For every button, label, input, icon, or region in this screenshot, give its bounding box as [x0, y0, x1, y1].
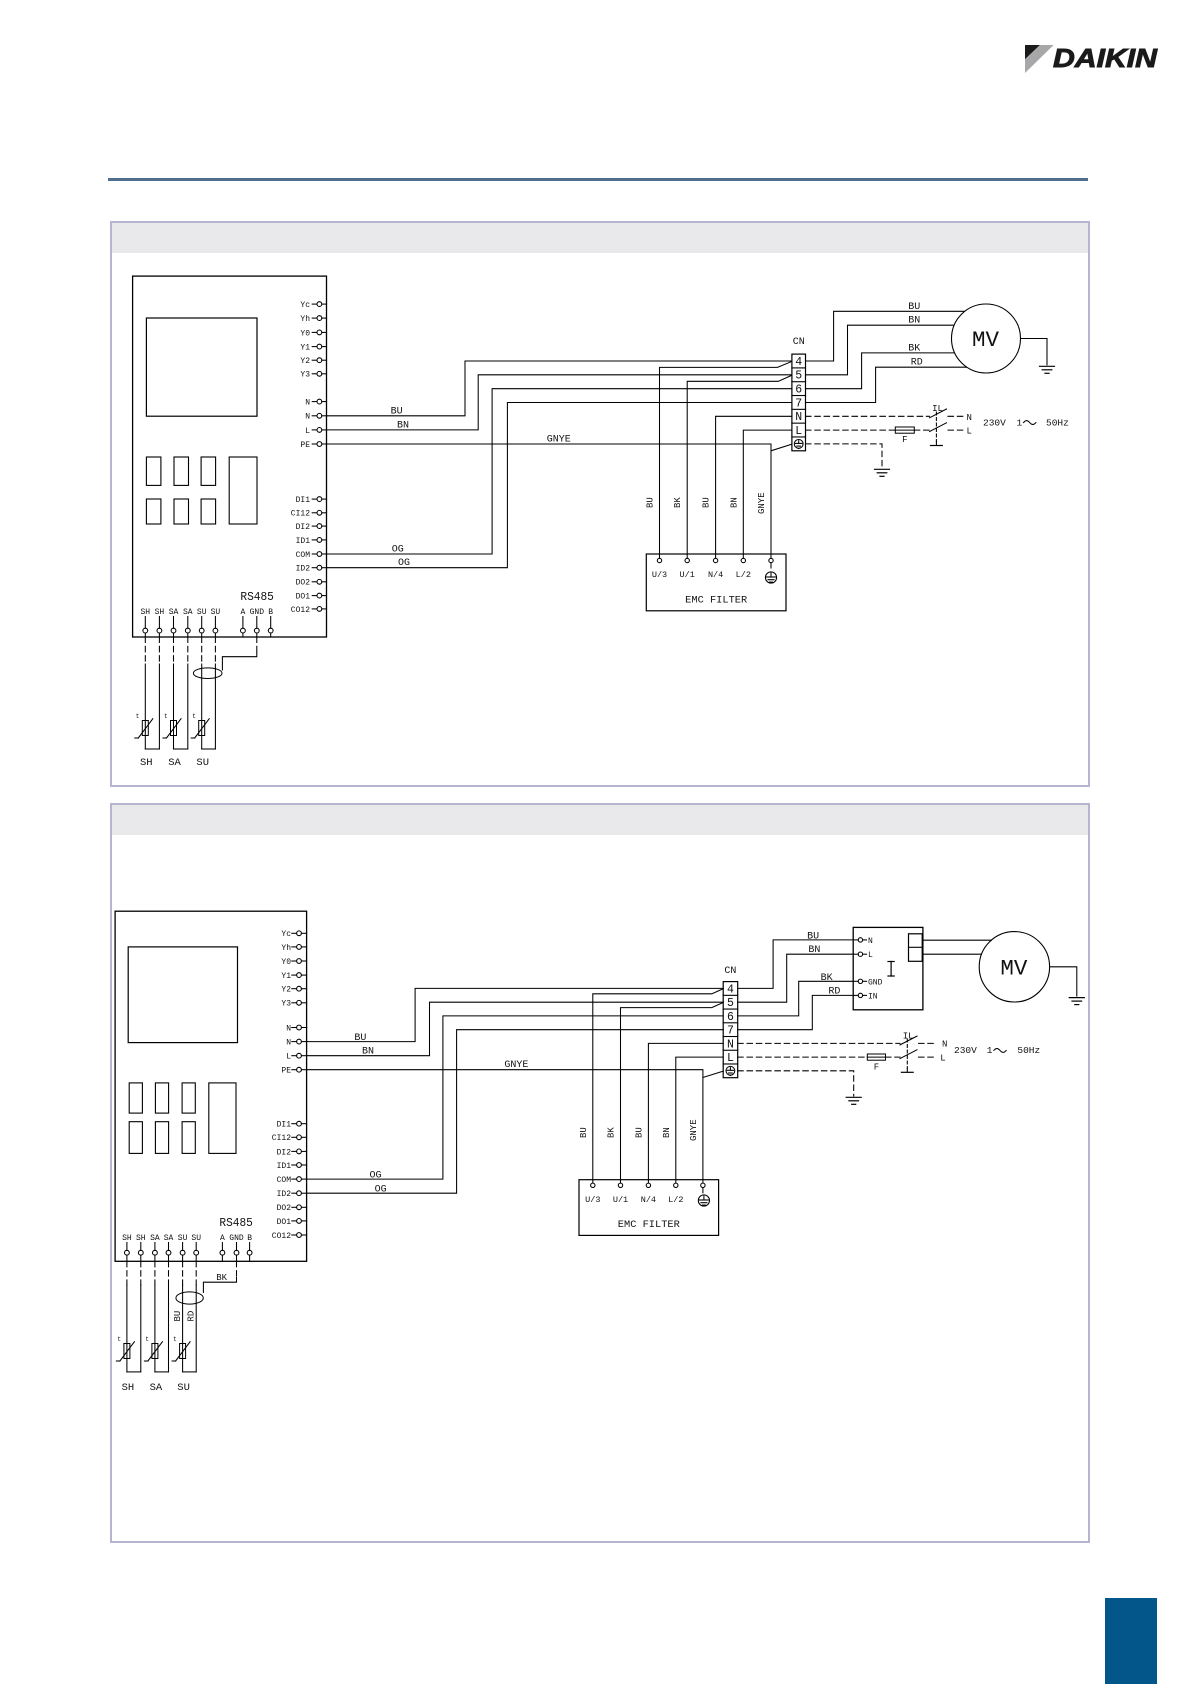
sensor pair wires SU (panel 1): [202, 637, 216, 749]
wire BN (A1 L to CN 5): [327, 375, 792, 432]
sensor pair wires SA (panel 1): [174, 637, 188, 749]
bottom pin GND panel 2: [229, 1234, 244, 1261]
svg-text:t: t: [192, 713, 196, 720]
DAIKIN logo: [1024, 44, 1164, 76]
controller A1 (panel 2): [115, 911, 307, 1261]
svg-text:SA: SA: [150, 1382, 163, 1394]
controller display (panel 2): [128, 947, 237, 1043]
svg-text:4: 4: [727, 983, 734, 996]
svg-text:U/1: U/1: [613, 1195, 628, 1205]
wire BU (CN 4 to motor): [806, 302, 965, 361]
svg-text:GNYE: GNYE: [689, 1119, 699, 1141]
pin ID2 (1193) panel 2: [277, 1190, 307, 1199]
svg-text:6: 6: [795, 384, 802, 397]
svg-text:N: N: [305, 413, 310, 422]
bottom pin SH (141) panel 2: [136, 1234, 146, 1261]
EMC terminal N/4: [708, 554, 723, 580]
wire BK (EMC U/1 to CN 5): [673, 375, 792, 554]
EMC terminal N/4 (panel 2): [641, 1180, 656, 1205]
wire BU (CN 4 to driver N): [738, 931, 854, 988]
wire earth supply (dashed, panel 2): [738, 1071, 854, 1096]
wire GNYE (PE to CN earth and EMC earth, panel 2): [307, 1060, 724, 1180]
EMC filter (panel 2): [579, 1180, 719, 1236]
wire OG (COM to CN 6, panel 2): [307, 1016, 724, 1181]
wire BN (CN 5 to driver L): [738, 945, 854, 1002]
svg-text:CI12: CI12: [272, 1134, 291, 1143]
svg-text:SA: SA: [169, 608, 179, 617]
svg-text:GNYE: GNYE: [504, 1060, 528, 1071]
wire OG (ID2 to CN 7, panel 2): [307, 1030, 724, 1196]
EMC terminal earth: [769, 554, 773, 568]
sensor pair wires SH (panel 2): [127, 1261, 141, 1372]
svg-text:BK: BK: [908, 343, 920, 354]
svg-text:N: N: [795, 411, 802, 424]
svg-text:L: L: [727, 1052, 734, 1065]
svg-text:GND: GND: [229, 1234, 244, 1243]
svg-text:Y0: Y0: [300, 329, 310, 338]
svg-text:B: B: [268, 608, 273, 617]
switch IL (panel 1): [930, 404, 947, 446]
svg-text:ID2: ID2: [296, 565, 311, 574]
svg-text:L/2: L/2: [668, 1195, 683, 1205]
pin CI12 (1137) panel 2: [272, 1134, 307, 1143]
wire BK (CN 6 to motor): [806, 343, 955, 388]
EMC terminal earth (panel 2): [701, 1180, 705, 1193]
panel frame 1: [110, 221, 1090, 787]
bottom pin SA (168) panel 2: [164, 1234, 174, 1261]
bottom pin SU (183) panel 2: [178, 1234, 188, 1261]
svg-text:BU: BU: [634, 1127, 644, 1138]
bottom pin GND A1: [250, 608, 265, 637]
wire BN (CN 5 to motor): [806, 316, 954, 375]
bottom pin SA (188) A1: [183, 608, 193, 637]
svg-text:COM: COM: [296, 551, 311, 560]
pin Y3 (374) A1: [300, 371, 326, 380]
bottom pin SA (155) panel 2: [150, 1234, 160, 1261]
pin N (1028) panel 2: [286, 1024, 306, 1033]
svg-text:PE: PE: [281, 1067, 291, 1076]
svg-text:DI1: DI1: [277, 1121, 292, 1130]
svg-text:1: 1: [1017, 417, 1023, 428]
svg-text:5: 5: [727, 997, 734, 1010]
svg-text:GND: GND: [868, 978, 883, 987]
svg-text:U/3: U/3: [585, 1195, 600, 1205]
sensor pair wires SA (panel 2): [155, 1261, 169, 1372]
svg-text:SA: SA: [168, 757, 181, 769]
svg-text:SH: SH: [155, 608, 165, 617]
pin Yc (304) A1: [300, 301, 326, 310]
bottom pin SU (196) panel 2: [191, 1234, 201, 1261]
svg-text:BU: BU: [391, 406, 403, 417]
thermistor SU (panel 2): [172, 1336, 190, 1361]
wire N 230V supply (dashed, panel 2): [738, 1040, 948, 1050]
svg-text:SU: SU: [196, 757, 209, 769]
pin ID1 (540) A1: [296, 537, 327, 546]
svg-text:N: N: [727, 1038, 734, 1051]
svg-text:SH: SH: [122, 1382, 135, 1394]
svg-text:7: 7: [795, 397, 802, 410]
svg-text:IL: IL: [903, 1032, 914, 1042]
svg-text:230V: 230V: [954, 1045, 977, 1056]
label 230V 1~ 50Hz (panel 1): [983, 417, 1069, 428]
svg-text:BU: BU: [646, 497, 656, 508]
ground (supply, panel 2): [846, 1096, 861, 1098]
shield wire GND BK to ferrite (panel 2): [203, 1261, 236, 1292]
wire BU (EMC N/4 to CN N): [702, 416, 792, 554]
controller keypad buttons (panel 2): [129, 1083, 236, 1154]
svg-text:Y2: Y2: [281, 986, 291, 995]
svg-text:CO12: CO12: [291, 606, 310, 615]
CN earth terminal symbol: [794, 440, 803, 449]
svg-text:BN: BN: [662, 1127, 672, 1138]
controller A1 (panel 1): [133, 276, 327, 637]
pin L (430) A1: [305, 427, 326, 436]
bottom pin SH (145) A1: [140, 608, 150, 637]
svg-text:SU: SU: [197, 608, 207, 617]
pin Y3 (1003) panel 2: [281, 1000, 306, 1009]
svg-text:IN: IN: [868, 992, 878, 1001]
driver output connector: [909, 934, 923, 962]
svg-text:U/1: U/1: [680, 570, 695, 580]
svg-text:BU: BU: [579, 1127, 589, 1138]
svg-text:SU: SU: [211, 608, 221, 617]
svg-text:OG: OG: [375, 1184, 387, 1195]
svg-text:BN: BN: [397, 420, 409, 431]
svg-text:GNYE: GNYE: [547, 435, 571, 446]
wire RD (CN 7 to motor): [806, 358, 967, 403]
svg-text:BU: BU: [908, 302, 920, 313]
wire N 230V supply (dashed): [806, 413, 972, 423]
svg-text:MV: MV: [1000, 956, 1028, 981]
svg-text:DO2: DO2: [296, 579, 311, 588]
svg-text:CO12: CO12: [272, 1232, 291, 1241]
motor MV (panel 1): [952, 304, 1021, 373]
svg-text:DO1: DO1: [296, 593, 311, 602]
pin DO1 (596) A1: [296, 593, 327, 602]
controller A1 keypad buttons: [146, 457, 257, 524]
svg-text:RD: RD: [828, 986, 840, 997]
bottom pin A panel 2: [220, 1234, 225, 1261]
svg-text:OG: OG: [370, 1170, 382, 1181]
bottom pin SH (159) A1: [155, 608, 165, 637]
wire BU (N to CN 4, panel 2): [307, 988, 724, 1044]
pin CO12 (609) A1: [291, 606, 327, 615]
svg-text:4: 4: [795, 356, 802, 369]
svg-text:RD: RD: [186, 1311, 196, 1322]
svg-text:50Hz: 50Hz: [1046, 417, 1069, 428]
pin DI1 (499) A1: [296, 496, 327, 505]
svg-text:L: L: [286, 1053, 291, 1062]
blue page tab: [1105, 1598, 1157, 1684]
svg-text:GND: GND: [250, 608, 265, 617]
bottom pin B A1: [268, 608, 273, 637]
pin CO12 (1235) panel 2: [272, 1232, 307, 1241]
pin N (402) A1: [305, 399, 326, 408]
svg-text:F: F: [874, 1063, 879, 1073]
pin Yc (933) panel 2: [281, 930, 306, 939]
svg-text:1: 1: [987, 1045, 993, 1056]
wire BU (EMC N/4 to CN N, panel 2): [634, 1043, 723, 1179]
svg-text:L: L: [305, 427, 310, 436]
svg-text:230V: 230V: [983, 417, 1006, 428]
svg-text:DO1: DO1: [277, 1218, 292, 1227]
svg-text:SH: SH: [140, 608, 150, 617]
thermistor SA (panel 2): [144, 1336, 162, 1361]
svg-text:A: A: [240, 608, 245, 617]
svg-text:SA: SA: [183, 608, 193, 617]
svg-text:SH: SH: [122, 1234, 132, 1243]
pin COM (1179) panel 2: [277, 1176, 307, 1185]
svg-text:DO2: DO2: [277, 1204, 292, 1213]
svg-text:BN: BN: [362, 1047, 374, 1058]
svg-text:SH: SH: [136, 1234, 146, 1243]
connector CN (panel 2): [723, 966, 738, 1078]
wire driver to motor (top): [923, 939, 992, 941]
pin ID2 (568) A1: [296, 565, 327, 574]
svg-text:CN: CN: [793, 337, 805, 348]
svg-text:ID1: ID1: [277, 1162, 292, 1171]
thermistor SH (panel 1): [135, 713, 153, 738]
svg-text:COM: COM: [277, 1176, 292, 1185]
wire driver to motor (bottom): [923, 953, 982, 955]
pin Y1 (975) panel 2: [281, 972, 306, 981]
wire OG (A1 ID2 to CN 7): [327, 403, 792, 570]
svg-text:ID1: ID1: [296, 537, 311, 546]
svg-text:EMC FILTER: EMC FILTER: [618, 1220, 680, 1231]
ferrite bead / cable loop (panel 1): [193, 668, 222, 679]
pin Yh (318) A1: [300, 315, 326, 324]
svg-text:DI2: DI2: [277, 1148, 292, 1157]
svg-text:Y2: Y2: [300, 357, 310, 366]
wire RD (CN 7 to driver IN): [738, 986, 854, 1029]
svg-text:N/4: N/4: [708, 570, 723, 580]
pin DO2 (1207) panel 2: [277, 1204, 307, 1213]
motor ground wire (panel 2): [1050, 967, 1077, 996]
svg-text:Y3: Y3: [300, 371, 310, 380]
svg-text:N: N: [967, 413, 972, 423]
pin DO1 (1221) panel 2: [277, 1218, 307, 1227]
ground (motor, panel 2): [1069, 997, 1084, 999]
svg-text:OG: OG: [392, 545, 404, 556]
pin L (1056) panel 2: [286, 1053, 306, 1062]
svg-text:L: L: [868, 951, 873, 960]
thermistor SH (panel 2): [116, 1336, 134, 1361]
svg-text:7: 7: [727, 1025, 734, 1038]
sensor pair wires SU (panel 2): [183, 1261, 197, 1372]
svg-text:BK: BK: [607, 1127, 617, 1138]
bottom pin SU (202) A1: [197, 608, 207, 637]
EMC terminal U/3: [652, 554, 667, 580]
bottom pin B panel 2: [247, 1234, 252, 1261]
pin DI1 (1124) panel 2: [277, 1121, 307, 1130]
svg-text:N: N: [868, 937, 873, 946]
svg-text:BK: BK: [821, 973, 833, 984]
fan driver module I: [853, 927, 923, 1009]
svg-text:ID2: ID2: [277, 1190, 292, 1199]
pin PE (1070) panel 2: [281, 1067, 306, 1076]
svg-text:BU: BU: [354, 1033, 366, 1044]
svg-text:Y0: Y0: [281, 958, 291, 967]
fuse F (panel 2): [867, 1054, 885, 1073]
svg-text:L: L: [795, 425, 802, 438]
svg-text:B: B: [247, 1234, 252, 1243]
svg-text:BN: BN: [729, 497, 739, 508]
thermistor SA (panel 1): [163, 713, 181, 738]
svg-text:CI12: CI12: [291, 510, 310, 519]
thermistor SU (panel 1): [191, 713, 209, 738]
svg-text:BU: BU: [702, 497, 712, 508]
wire OG (A1 COM to CN 6): [327, 389, 792, 556]
svg-text:RS485: RS485: [240, 591, 274, 604]
wire L 230V supply (dashed) with fuse: [806, 427, 972, 437]
ground (motor, panel 1): [1040, 365, 1055, 367]
svg-text:BU: BU: [173, 1311, 183, 1322]
fuse F (panel 1): [895, 427, 914, 445]
ground (supply, panel 1): [875, 468, 890, 470]
pin Y0 (961) panel 2: [281, 958, 306, 967]
svg-text:BN: BN: [808, 945, 820, 956]
label 230V 1~ 50Hz (panel 2): [954, 1045, 1040, 1056]
pin PE (444) A1: [300, 441, 326, 450]
pin Y2 (989) panel 2: [281, 986, 306, 995]
svg-text:RS485: RS485: [219, 1217, 253, 1230]
ferrite bead / cable loop (panel 2): [176, 1292, 203, 1304]
motor MV (panel 2): [979, 932, 1049, 1002]
pin N (1042) panel 2: [286, 1039, 306, 1048]
EMC terminal L/2 (panel 2): [668, 1180, 683, 1205]
svg-text:OG: OG: [398, 558, 410, 569]
pin Y1 (347) A1: [300, 344, 326, 353]
bottom pin A A1: [240, 608, 245, 637]
wire BN (L to CN 5, panel 2): [307, 1002, 724, 1057]
svg-text:N: N: [305, 399, 310, 408]
pin COM (554) A1: [296, 551, 327, 560]
svg-text:6: 6: [727, 1011, 734, 1024]
svg-text:BK: BK: [673, 497, 683, 508]
svg-text:L/2: L/2: [736, 570, 751, 580]
svg-text:t: t: [145, 1336, 149, 1343]
svg-text:t: t: [117, 1336, 121, 1343]
EMC terminal U/3 (panel 2): [585, 1180, 600, 1205]
svg-text:N: N: [286, 1039, 291, 1048]
EMC earth symbol (panel 2): [698, 1195, 709, 1206]
connector CN (panel 1): [792, 337, 806, 451]
svg-text:A: A: [220, 1234, 225, 1243]
sensor pair wires SH (panel 1): [145, 637, 159, 749]
wire BU (EMC U/3 to CN 4): [646, 361, 792, 554]
svg-text:SU: SU: [191, 1234, 201, 1243]
top horizontal rule: [108, 178, 1088, 180]
shield wire GND to ferrite (panel 1): [222, 637, 256, 670]
svg-text:CN: CN: [724, 966, 736, 977]
svg-text:L: L: [967, 427, 972, 437]
wire GNYE (A1 PE to CN earth and EMC earth): [327, 435, 792, 555]
EMC terminal U/1 (panel 2): [613, 1180, 628, 1205]
wire BN (EMC L/2 to CN L): [729, 430, 792, 554]
svg-text:Yc: Yc: [281, 930, 291, 939]
bottom pin SA (174) A1: [169, 608, 179, 637]
svg-text:N/4: N/4: [641, 1195, 656, 1205]
svg-text:SU: SU: [177, 1382, 190, 1394]
svg-text:Yc: Yc: [300, 301, 310, 310]
wire BU (EMC U/3 to CN 4, panel 2): [579, 989, 723, 1180]
wire BU (A1 N to CN 4): [327, 361, 792, 417]
svg-text:t: t: [164, 713, 168, 720]
EMC terminal U/1: [680, 554, 695, 580]
panel frame 2: [110, 803, 1090, 1543]
svg-text:PE: PE: [300, 441, 310, 450]
svg-text:BU: BU: [807, 931, 819, 942]
svg-text:5: 5: [795, 370, 802, 383]
svg-text:Y1: Y1: [281, 972, 291, 981]
pin Yh (947) panel 2: [281, 944, 306, 953]
svg-text:L: L: [940, 1054, 945, 1064]
svg-text:EMC FILTER: EMC FILTER: [685, 596, 747, 607]
svg-text:DI2: DI2: [296, 523, 311, 532]
svg-text:50Hz: 50Hz: [1017, 1045, 1040, 1056]
pin Y2 (360) A1: [300, 357, 326, 366]
switch IL (panel 2): [900, 1032, 917, 1073]
pin N (416) A1: [305, 413, 326, 422]
EMC filter (panel 1): [646, 554, 786, 611]
pin DO2 (582) A1: [296, 579, 327, 588]
svg-text:SU: SU: [178, 1234, 188, 1243]
bottom pin SH (127) panel 2: [122, 1234, 132, 1261]
motor ground wire: [1021, 339, 1048, 365]
svg-text:t: t: [173, 1336, 177, 1343]
wire BN (EMC L/2 to CN L, panel 2): [662, 1057, 723, 1180]
svg-text:BK: BK: [216, 1273, 227, 1283]
svg-text:SH: SH: [140, 757, 153, 769]
svg-text:Yh: Yh: [281, 944, 291, 953]
svg-text:F: F: [902, 435, 907, 445]
pin DI2 (1151) panel 2: [277, 1148, 307, 1157]
wire L 230V supply (dashed) with fuse (panel 2): [738, 1054, 946, 1064]
pin DI2 (526) A1: [296, 523, 327, 532]
pin CI12 (513) A1: [291, 510, 327, 519]
svg-text:MV: MV: [972, 328, 1000, 353]
svg-text:DI1: DI1: [296, 496, 311, 505]
pin Y0 (332) A1: [300, 329, 326, 338]
svg-text:Y1: Y1: [300, 344, 310, 353]
controller A1 display: [146, 318, 257, 416]
EMC earth symbol: [765, 572, 776, 583]
svg-text:U/3: U/3: [652, 570, 667, 580]
svg-text:N: N: [286, 1024, 291, 1033]
svg-text:t: t: [136, 713, 140, 720]
svg-text:RD: RD: [911, 358, 923, 369]
svg-text:SA: SA: [150, 1234, 160, 1243]
EMC terminal L/2: [736, 554, 751, 580]
bottom pin SU (215) A1: [211, 608, 221, 637]
wire earth supply (dashed): [806, 444, 883, 468]
svg-text:SA: SA: [164, 1234, 174, 1243]
wire BK (CN 6 to driver GND): [738, 973, 854, 1016]
svg-text:N: N: [942, 1040, 947, 1050]
wire BK (EMC U/1 to CN 5, panel 2): [607, 1003, 724, 1180]
svg-text:Y3: Y3: [281, 1000, 291, 1009]
svg-text:Yh: Yh: [300, 315, 310, 324]
svg-text:BN: BN: [908, 316, 920, 327]
svg-text:IL: IL: [932, 404, 943, 414]
CN earth terminal symbol (panel 2): [726, 1066, 735, 1075]
pin ID1 (1165) panel 2: [277, 1162, 307, 1171]
svg-text:GNYE: GNYE: [757, 492, 767, 514]
